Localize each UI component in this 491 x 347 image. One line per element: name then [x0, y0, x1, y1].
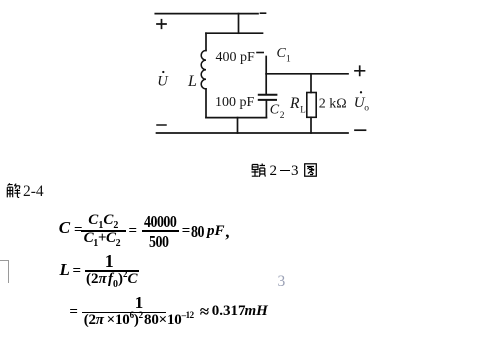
wire stub bottom (tank bottom to rail)	[237, 118, 239, 133]
hanzi TU (figure)	[304, 164, 316, 176]
wire C1-C2 junction to output	[266, 73, 348, 75]
terminal + left	[157, 20, 166, 29]
capacitor C2 bottom lead	[265, 101, 267, 118]
wire top rail	[155, 12, 265, 14]
capacitor C1 bottom lead	[265, 57, 267, 74]
wire tank bottom	[206, 117, 266, 119]
capacitor C2 bottom plate	[259, 99, 276, 101]
svg-text:400 pF: 400 pF	[216, 50, 256, 65]
margin corner mark (grey)	[0, 260, 9, 283]
formula 2: L = 1/((2pi f0)^2 C)	[0, 0, 1, 1]
solution label: JIE 2-4	[6, 183, 21, 199]
resistor RL top lead	[310, 74, 312, 93]
wire stub top (rail to tank top)	[238, 14, 240, 34]
svg-text:R: R	[289, 95, 300, 112]
capacitor C2 top lead	[265, 74, 267, 94]
svg-text:2 kΩ: 2 kΩ	[319, 97, 347, 112]
resistor RL body	[307, 93, 316, 118]
formula 1: C = C1C2/(C1+C2) = 40000/500 = 80 pF,	[0, 0, 1, 1]
svg-text:U: U	[157, 73, 169, 89]
hanzi JIE (solution)	[7, 183, 20, 197]
svg-text:L: L	[300, 104, 306, 114]
hanzi TI (problem)	[252, 164, 266, 177]
terminal - right	[355, 129, 366, 131]
terminal - left	[157, 124, 166, 126]
caption: 题 2-3 图	[251, 163, 321, 178]
inductor L bottom lead	[205, 89, 207, 118]
wire bottom rail	[157, 132, 349, 134]
capacitor C2 top plate	[259, 94, 277, 96]
terminal + right	[355, 66, 365, 75]
svg-text:100 pF: 100 pF	[215, 95, 255, 110]
svg-text:o: o	[364, 103, 369, 113]
circuit schematic	[0, 0, 400, 185]
formula 3: = 1/((2pi x 10^6)^2 80x10^-12) ~= 0.317 mH	[0, 0, 1, 1]
svg-text:2: 2	[280, 111, 285, 121]
page number 3 (faint)	[278, 273, 286, 291]
capacitor C1 top plate	[257, 52, 263, 54]
inductor L coil (4 humps)	[201, 51, 206, 89]
wire tank top	[206, 32, 263, 34]
svg-text:1: 1	[286, 55, 291, 65]
svg-text:C: C	[277, 46, 287, 61]
inductor L left branch: top lead	[205, 33, 207, 50]
svg-text:L: L	[187, 73, 197, 90]
resistor RL bottom lead	[310, 117, 312, 133]
svg-text:C: C	[270, 103, 280, 118]
